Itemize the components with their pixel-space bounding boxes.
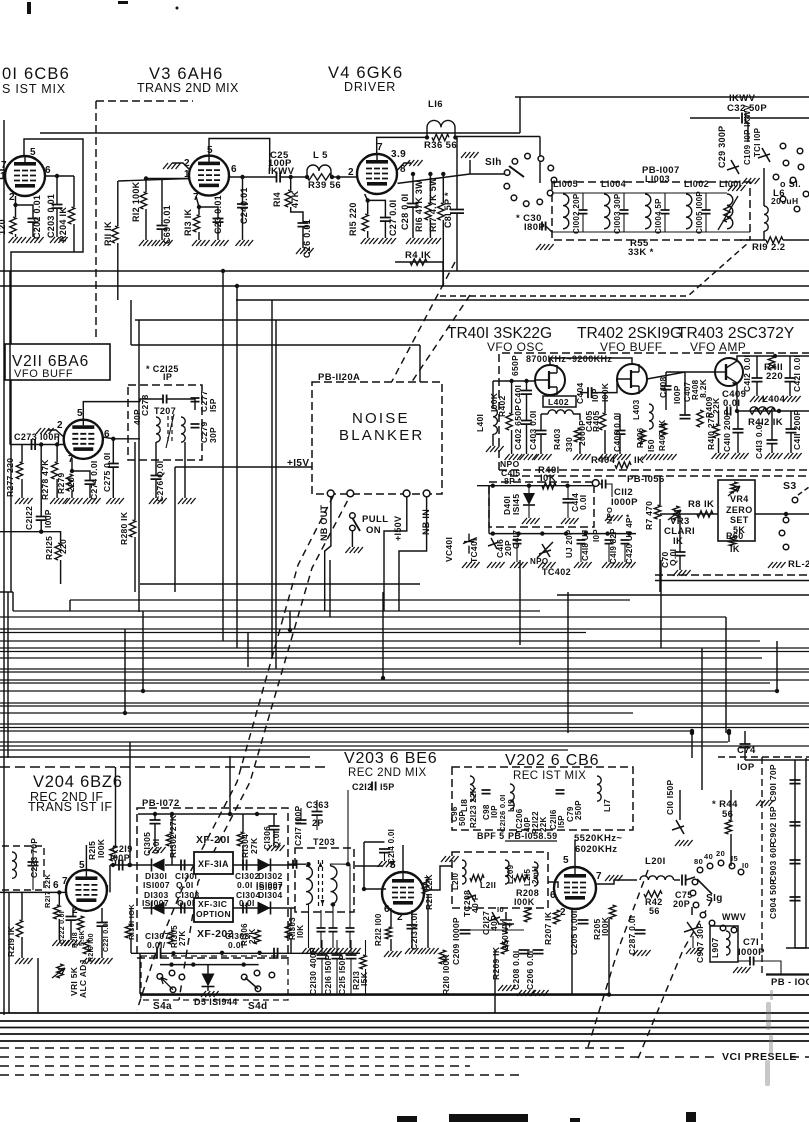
scan smudge [765, 990, 773, 1086]
wire [684, 372, 686, 415]
wire [56, 208, 58, 237]
bus wire [0, 1012, 809, 1014]
module PB-1056 box [489, 482, 594, 527]
capacitor C403 [536, 431, 547, 435]
wire pin2 V2 [15, 196, 17, 205]
ground [64, 940, 82, 946]
resistor R205 [609, 905, 615, 919]
wire [442, 220, 444, 286]
dashed divider [0, 766, 330, 768]
svg-text:CI003 30P: CI003 30P [613, 193, 622, 234]
tube V203 6BE6 [382, 872, 424, 914]
switch contact [780, 143, 786, 149]
resistor R16 [425, 203, 431, 220]
capacitor C903 [790, 860, 801, 864]
bus wire [0, 640, 760, 642]
capacitor C1308 [274, 948, 278, 959]
ground [441, 856, 459, 862]
tube V211 6BA6 [64, 420, 103, 459]
trimmer TC401 [488, 538, 499, 549]
diode D401 [523, 493, 535, 505]
wiper VR1 [52, 968, 65, 978]
svg-text:LI004: LI004 [601, 179, 626, 189]
resistor R403 [574, 428, 580, 442]
svg-text:CI0 I50P: CI0 I50P [665, 779, 675, 815]
svg-text:I00P: I00P [43, 509, 53, 528]
svg-text:I00K: I00K [514, 897, 535, 907]
svg-text:I5P: I5P [380, 782, 395, 792]
svg-text:ON: ON [366, 525, 381, 536]
filter XF-31C [194, 898, 233, 922]
wire [411, 910, 413, 925]
ground [26, 237, 44, 243]
switch contact [690, 890, 696, 896]
wire [32, 222, 34, 237]
inductor T203 primary [306, 866, 312, 904]
wire [129, 742, 131, 865]
svg-text:LI00I: LI00I [719, 179, 742, 189]
wire [12, 592, 14, 611]
bus wire [0, 1040, 809, 1042]
wire [546, 226, 552, 232]
bus wire [0, 616, 726, 618]
svg-text:7: 7 [68, 454, 74, 465]
svg-text:C363: C363 [306, 800, 329, 810]
page-bottom fragment [397, 1116, 417, 1122]
bus wire [140, 583, 420, 585]
inductor L404 [750, 407, 775, 411]
svg-text:R204 IK: R204 IK [58, 207, 68, 242]
capacitor C414 [563, 499, 574, 503]
wire grid V3 [118, 179, 189, 182]
wire [15, 234, 17, 237]
svg-text:IP: IP [163, 372, 172, 382]
svg-text:REC IST MIX: REC IST MIX [513, 770, 586, 782]
switch contact [792, 497, 798, 503]
trimmer arrow T207 [166, 414, 174, 448]
wire drain to buff [550, 358, 632, 365]
switch contact [790, 177, 796, 183]
dashed gang bus [0, 1065, 470, 1067]
page-bottom fragment [449, 1114, 528, 1122]
wire [56, 176, 58, 204]
wire [242, 177, 244, 204]
svg-text:I5P: I5P [208, 398, 218, 412]
wire grid V202 [548, 882, 558, 888]
capacitor C208 [519, 950, 530, 954]
capacitor C214 [379, 849, 390, 853]
dashed border [96, 100, 193, 102]
svg-text:5: 5 [563, 855, 569, 866]
ground [733, 967, 751, 973]
wire [110, 864, 152, 866]
wire [332, 176, 357, 178]
inductor T201 [12, 852, 16, 878]
wire emitter TR403 [737, 383, 809, 411]
wire [167, 399, 195, 410]
ground [405, 948, 423, 954]
capacitor [579, 210, 588, 214]
wire [131, 344, 420, 346]
switch contact [548, 165, 554, 171]
junction [565, 484, 569, 488]
svg-text:C202 0.01: C202 0.01 [32, 195, 42, 239]
svg-text:S3: S3 [783, 480, 797, 492]
ground [326, 948, 344, 954]
resistor R405 [599, 413, 605, 430]
dashed box input coil [2, 846, 44, 890]
bus wire [0, 723, 809, 725]
bus wire [13, 610, 540, 612]
svg-text:TRANS 2ND MIX: TRANS 2ND MIX [137, 81, 239, 95]
svg-text:C205 0.00I: C205 0.00I [569, 910, 579, 955]
wire [115, 767, 117, 846]
wire pin6 V2 [45, 175, 74, 177]
wire [679, 790, 681, 820]
capacitor C420 [621, 540, 630, 544]
wire [72, 471, 90, 480]
dashed box BPF [452, 767, 633, 830]
ground [561, 518, 579, 524]
terminal [347, 490, 354, 497]
bus wire [0, 671, 809, 673]
wire [71, 491, 73, 498]
junction [220, 951, 224, 955]
switch contact [504, 183, 510, 189]
wire left rail [3, 120, 5, 1015]
svg-text:C74: C74 [737, 745, 756, 756]
svg-text:C404: C404 [575, 382, 585, 404]
wire [541, 413, 548, 415]
switch S4a contact [157, 974, 163, 980]
svg-text:0.0I: 0.0I [228, 940, 244, 950]
junction [111, 863, 115, 867]
wire [271, 300, 273, 658]
wire [384, 853, 386, 861]
resistor R1305 [168, 930, 174, 944]
svg-text:C403 0.0I: C403 0.0I [528, 410, 538, 450]
ground [728, 185, 746, 191]
wire pin7 stub [0, 169, 5, 171]
wire [117, 181, 119, 226]
wire [411, 929, 413, 948]
junction [235, 284, 239, 288]
resistor R8 [697, 511, 713, 517]
resistor R210 [439, 950, 445, 964]
svg-text:L209: L209 [506, 864, 515, 884]
svg-text:7: 7 [596, 871, 602, 882]
bus wire [0, 727, 809, 729]
wire out V202 [596, 880, 637, 884]
svg-text:0.0I: 0.0I [239, 898, 255, 908]
wire [308, 905, 310, 949]
svg-text:C40I: C40I [513, 385, 523, 404]
wire [130, 300, 132, 345]
resistor R209 [501, 940, 507, 954]
diode D5 [202, 974, 215, 987]
junction [777, 409, 781, 413]
ground [148, 847, 166, 853]
svg-text:T203: T203 [313, 837, 335, 847]
junction [55, 442, 59, 446]
capacitor C30 [542, 222, 546, 231]
ground [712, 453, 730, 459]
svg-text:I5P: I5P [557, 815, 566, 828]
capacitor C215 [346, 955, 357, 959]
svg-text:C4I7: C4I7 [511, 530, 521, 549]
ground [510, 562, 528, 568]
switch contact [803, 191, 809, 197]
wire [165, 864, 194, 866]
svg-text:R4 IK: R4 IK [405, 250, 431, 261]
bus wire [0, 741, 728, 743]
svg-text:22K: 22K [539, 816, 548, 832]
junction [428, 172, 432, 176]
svg-text:VR4: VR4 [730, 494, 749, 504]
wire [592, 379, 617, 393]
wire [134, 537, 136, 592]
svg-text:0.01: 0.01 [239, 187, 249, 206]
svg-text:6: 6 [53, 880, 59, 891]
wire [730, 834, 732, 866]
ground [192, 240, 210, 246]
inductor T203 secondary [331, 866, 337, 904]
svg-text:R277 220: R277 220 [5, 458, 15, 497]
pot VR1 [57, 964, 63, 978]
svg-text:+I50V: +I50V [393, 516, 403, 541]
capacitor C24 [237, 204, 248, 208]
resistor R42 [644, 891, 662, 897]
wire [140, 399, 163, 402]
junction [516, 531, 520, 535]
resistor R217 [54, 905, 60, 919]
wire [302, 227, 304, 248]
wire [160, 964, 259, 966]
wire pin7 [71, 458, 73, 471]
resistor R4 [410, 259, 427, 265]
capacitor C407 [680, 415, 691, 419]
dashed border preselector [761, 757, 763, 974]
capacitor C213 [407, 925, 418, 929]
wire [390, 939, 392, 951]
wire [291, 207, 303, 223]
svg-text:I00K: I00K [96, 838, 106, 858]
trimmer TC208 [465, 890, 476, 902]
wire [789, 382, 791, 396]
wire [664, 214, 666, 232]
resistor R402 [506, 413, 512, 430]
wire [526, 394, 528, 420]
wire [660, 560, 662, 648]
resistor R1304 [237, 832, 243, 846]
wire [730, 790, 732, 820]
capacitor C275 [108, 464, 119, 468]
wire [138, 320, 140, 612]
capacitor C363 [312, 812, 323, 816]
ground [345, 547, 363, 553]
svg-text:S IST MIX: S IST MIX [2, 82, 66, 96]
bus wire [0, 270, 809, 272]
switch rotor [509, 166, 524, 177]
wire [701, 648, 703, 790]
switch contact [537, 199, 543, 205]
wire [365, 940, 367, 955]
ground [598, 454, 616, 460]
capacitor C409 [727, 407, 731, 416]
resistor R411 [768, 356, 774, 370]
junction [627, 531, 631, 535]
svg-text:LI7: LI7 [602, 799, 612, 812]
capacitor C902 [790, 822, 801, 826]
switch contact [512, 159, 518, 165]
capacitor C25 [277, 172, 281, 183]
wire [242, 208, 244, 241]
junction [153, 812, 157, 816]
switch contact [523, 201, 529, 207]
resistor R408 [697, 410, 703, 427]
svg-text:C24: C24 [239, 207, 249, 224]
wire [395, 261, 443, 263]
svg-text:ISI007: ISI007 [143, 880, 170, 890]
ground [95, 958, 113, 964]
svg-text:C22I 0.0I: C22I 0.0I [103, 921, 110, 952]
switch contact [511, 195, 517, 201]
wire [112, 439, 114, 463]
wire [207, 965, 209, 974]
switch contact [718, 860, 724, 866]
ground [163, 163, 181, 169]
box V211 title [5, 344, 110, 380]
junction [381, 676, 385, 680]
wire grid V211 [10, 444, 64, 446]
inductor L17 [597, 776, 601, 801]
wire [738, 960, 750, 962]
wire [115, 861, 117, 865]
wire [771, 411, 773, 440]
junction [527, 484, 531, 488]
capacitor C1306 [269, 826, 280, 830]
svg-text:XF-3IA: XF-3IA [198, 859, 229, 869]
wire [138, 813, 277, 815]
capacitor C112 [602, 480, 606, 489]
svg-text:5: 5 [390, 860, 396, 871]
ground [139, 240, 157, 246]
ground [461, 152, 479, 158]
resistor R1302 [166, 832, 172, 846]
svg-text:220: 220 [58, 539, 68, 554]
wire [331, 790, 349, 866]
svg-text:C2I22: C2I22 [24, 506, 34, 530]
svg-text:C274 0.0I: C274 0.0I [89, 460, 99, 500]
junction [55, 174, 59, 178]
wire [679, 556, 681, 570]
ground [522, 518, 540, 524]
svg-text:C206 0.0I: C206 0.0I [525, 950, 535, 990]
ground [155, 240, 173, 246]
wire [775, 355, 809, 357]
bus wire [0, 690, 777, 692]
ground [534, 454, 552, 460]
wire [58, 892, 60, 905]
svg-text:6: 6 [550, 890, 556, 901]
svg-text:RI7 4.7K 5W: RI7 4.7K 5W [428, 177, 438, 232]
wire [691, 733, 693, 758]
wire [73, 176, 75, 207]
capacitor C1307 [157, 948, 161, 959]
wire [21, 445, 23, 463]
ground [65, 498, 83, 504]
bus wire [0, 1033, 809, 1035]
resistor [470, 875, 484, 881]
inductor [604, 194, 610, 229]
wire [794, 760, 796, 948]
svg-text:220: 220 [66, 477, 76, 492]
ground [236, 240, 254, 246]
svg-text:NB OUT: NB OUT [319, 505, 329, 541]
wire [124, 629, 126, 713]
wire [8, 892, 10, 1013]
svg-text:SET: SET [730, 515, 749, 525]
wire [130, 938, 132, 953]
wire [21, 937, 23, 958]
svg-text:CI005 I00P: CI005 I00P [695, 191, 704, 234]
inductor [563, 194, 569, 229]
capacitor C411 [786, 429, 797, 433]
bus wire [0, 285, 809, 287]
trimmer TC402 [537, 542, 553, 558]
svg-text:I00P: I00P [672, 385, 682, 404]
wire [21, 479, 23, 498]
wire [427, 894, 429, 948]
wire [207, 987, 209, 992]
ground [618, 562, 636, 568]
svg-text:L403: L403 [631, 399, 641, 420]
svg-text:6020KHz: 6020KHz [575, 844, 617, 855]
capacitor C23 [213, 219, 224, 223]
svg-text:L20I: L20I [645, 856, 666, 867]
speck [118, 1, 128, 4]
bus wire [0, 749, 568, 751]
wire [58, 919, 60, 940]
svg-text:6: 6 [45, 165, 51, 176]
wire [300, 808, 302, 820]
wire [161, 952, 360, 954]
svg-text:I0: I0 [497, 905, 504, 914]
wire [56, 479, 58, 498]
svg-text:R207 IK: R207 IK [543, 911, 553, 945]
wire [624, 544, 626, 562]
wire [705, 214, 707, 232]
wire [756, 356, 758, 378]
dashed box L210 [452, 852, 548, 908]
wire [198, 232, 200, 240]
svg-text:2: 2 [348, 167, 354, 178]
wire [690, 117, 740, 119]
svg-text:C69 0.01: C69 0.01 [162, 205, 172, 244]
inductor L6 [764, 206, 768, 231]
svg-text:ISI007: ISI007 [256, 882, 283, 892]
wire [737, 411, 739, 429]
junction [524, 379, 528, 383]
svg-text:C275 0.0I: C275 0.0I [102, 452, 112, 492]
junction [197, 205, 201, 209]
svg-text:CI004 5P: CI004 5P [654, 198, 663, 234]
wire [351, 531, 353, 547]
capacitor C75 [682, 875, 686, 886]
capacitor C2122 [36, 517, 47, 521]
resistor R55 [724, 205, 730, 222]
wire [623, 214, 625, 232]
